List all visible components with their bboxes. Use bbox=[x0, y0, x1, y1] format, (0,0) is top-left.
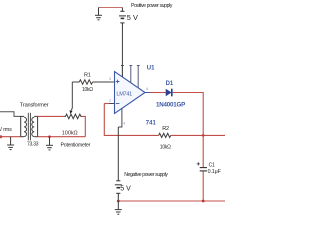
svg-text:0.1μF: 0.1μF bbox=[208, 169, 222, 175]
svg-text:6: 6 bbox=[146, 87, 148, 91]
op-amp pin 3 stub (non-inverting input) bbox=[110, 81, 115, 83]
wire: feedback from inverting input down and right to R2 bbox=[104, 104, 158, 136]
polarity mark + (C1) bbox=[197, 162, 200, 165]
svg-text:V rms: V rms bbox=[0, 127, 12, 133]
ground (below transformer secondary) bbox=[46, 137, 53, 150]
wire: potentiometer right side down to bottom rail bbox=[82, 116, 85, 136]
wire: op-amp output to diode D1 anode bbox=[151, 92, 166, 94]
svg-text:Transformer: Transformer bbox=[20, 103, 49, 109]
svg-text:4: 4 bbox=[123, 122, 125, 126]
wire: battery V1 to op-amp V+ pin 7 bbox=[121, 28, 123, 77]
ground (top, near positive supply) bbox=[95, 8, 102, 20]
wire: secondary top to potentiometer left bbox=[38, 115, 65, 117]
wire: right vertical from R2 row to capacitor C1 bbox=[202, 135, 204, 167]
resistor R1 bbox=[72, 80, 114, 84]
svg-text:73.33: 73.33 bbox=[27, 142, 39, 148]
svg-text:U1: U1 bbox=[147, 66, 155, 72]
node: junction right vertical / R2 row bbox=[202, 134, 205, 137]
wire: top supply net from ground to battery V1 bbox=[99, 7, 123, 9]
op-amp pin 2 stub (inverting input) bbox=[109, 103, 115, 105]
svg-text:C1: C1 bbox=[209, 163, 215, 169]
op-amp U1 LM741 triangle bbox=[115, 72, 146, 114]
svg-text:R2: R2 bbox=[162, 126, 169, 132]
svg-text:5 V: 5 V bbox=[127, 13, 138, 22]
wire: AC source top lead to transformer primary top bbox=[0, 112, 21, 117]
resistor R2 bbox=[159, 133, 171, 137]
op-amp pin 5 stub bbox=[137, 66, 140, 88]
ground (below negative supply) bbox=[115, 201, 122, 214]
svg-text:1N4001GP: 1N4001GP bbox=[156, 102, 185, 109]
svg-text:10kΩ: 10kΩ bbox=[82, 87, 93, 93]
op-amp pin 4 (V-) lead with jog bbox=[118, 108, 122, 127]
ground (left, AC source net) bbox=[7, 137, 14, 150]
svg-text:741: 741 bbox=[146, 121, 157, 127]
wire: op-amp V- down to battery V2 bbox=[117, 127, 119, 181]
capacitor C1 bbox=[200, 168, 207, 171]
wire: AC source bottom to transformer primary bottom bbox=[0, 136, 21, 138]
op-amp output pin 6 stub bbox=[145, 92, 151, 94]
svg-text:LM741: LM741 bbox=[116, 92, 132, 98]
potentiometer R3 body bbox=[64, 114, 82, 119]
op-amp pin 7 (V+) lead from battery bbox=[121, 66, 124, 78]
op-amp input polarity marks bbox=[116, 80, 120, 104]
svg-text:D1: D1 bbox=[166, 81, 174, 87]
transformer T1 core bbox=[28, 113, 30, 141]
svg-text:10kΩ: 10kΩ bbox=[160, 144, 171, 150]
transformer T1 secondary winding bbox=[32, 116, 38, 136]
op-amp pin 1 stub bbox=[129, 66, 132, 83]
potentiometer wiper arrow bbox=[70, 82, 73, 110]
node: AC source bottom terminal (red) bbox=[0, 135, 2, 138]
svg-text:Negative power supply: Negative power supply bbox=[124, 172, 168, 178]
wire: secondary bottom rail bbox=[38, 136, 86, 138]
node: junction capacitor C1 / bottom rail bbox=[202, 200, 205, 203]
svg-text:100kΩ: 100kΩ bbox=[62, 130, 78, 136]
wire: R2 right to right edge bbox=[171, 134, 225, 136]
svg-text:Potentiometer: Potentiometer bbox=[61, 142, 91, 148]
svg-text:5 V: 5 V bbox=[120, 185, 131, 192]
battery V1 +5V (positive supply) bbox=[119, 8, 126, 29]
node: junction secondary bottom / ground bbox=[48, 135, 51, 138]
svg-text:R1: R1 bbox=[84, 72, 91, 78]
svg-text:3: 3 bbox=[109, 77, 111, 81]
svg-text:Positive power supply: Positive power supply bbox=[131, 3, 173, 9]
transformer T1 primary winding bbox=[21, 116, 27, 136]
wire: capacitor C1 bottom to bottom rail bbox=[202, 171, 204, 201]
diode D1 bbox=[166, 89, 172, 97]
node: junction battery V2 / bottom rail / ground bbox=[117, 200, 120, 203]
svg-text:2: 2 bbox=[109, 99, 111, 103]
wire: diode cathode to right vertical net bbox=[173, 93, 204, 136]
wire: bottom rail bbox=[118, 200, 225, 202]
battery V2 -5V (negative supply) bbox=[115, 181, 122, 201]
